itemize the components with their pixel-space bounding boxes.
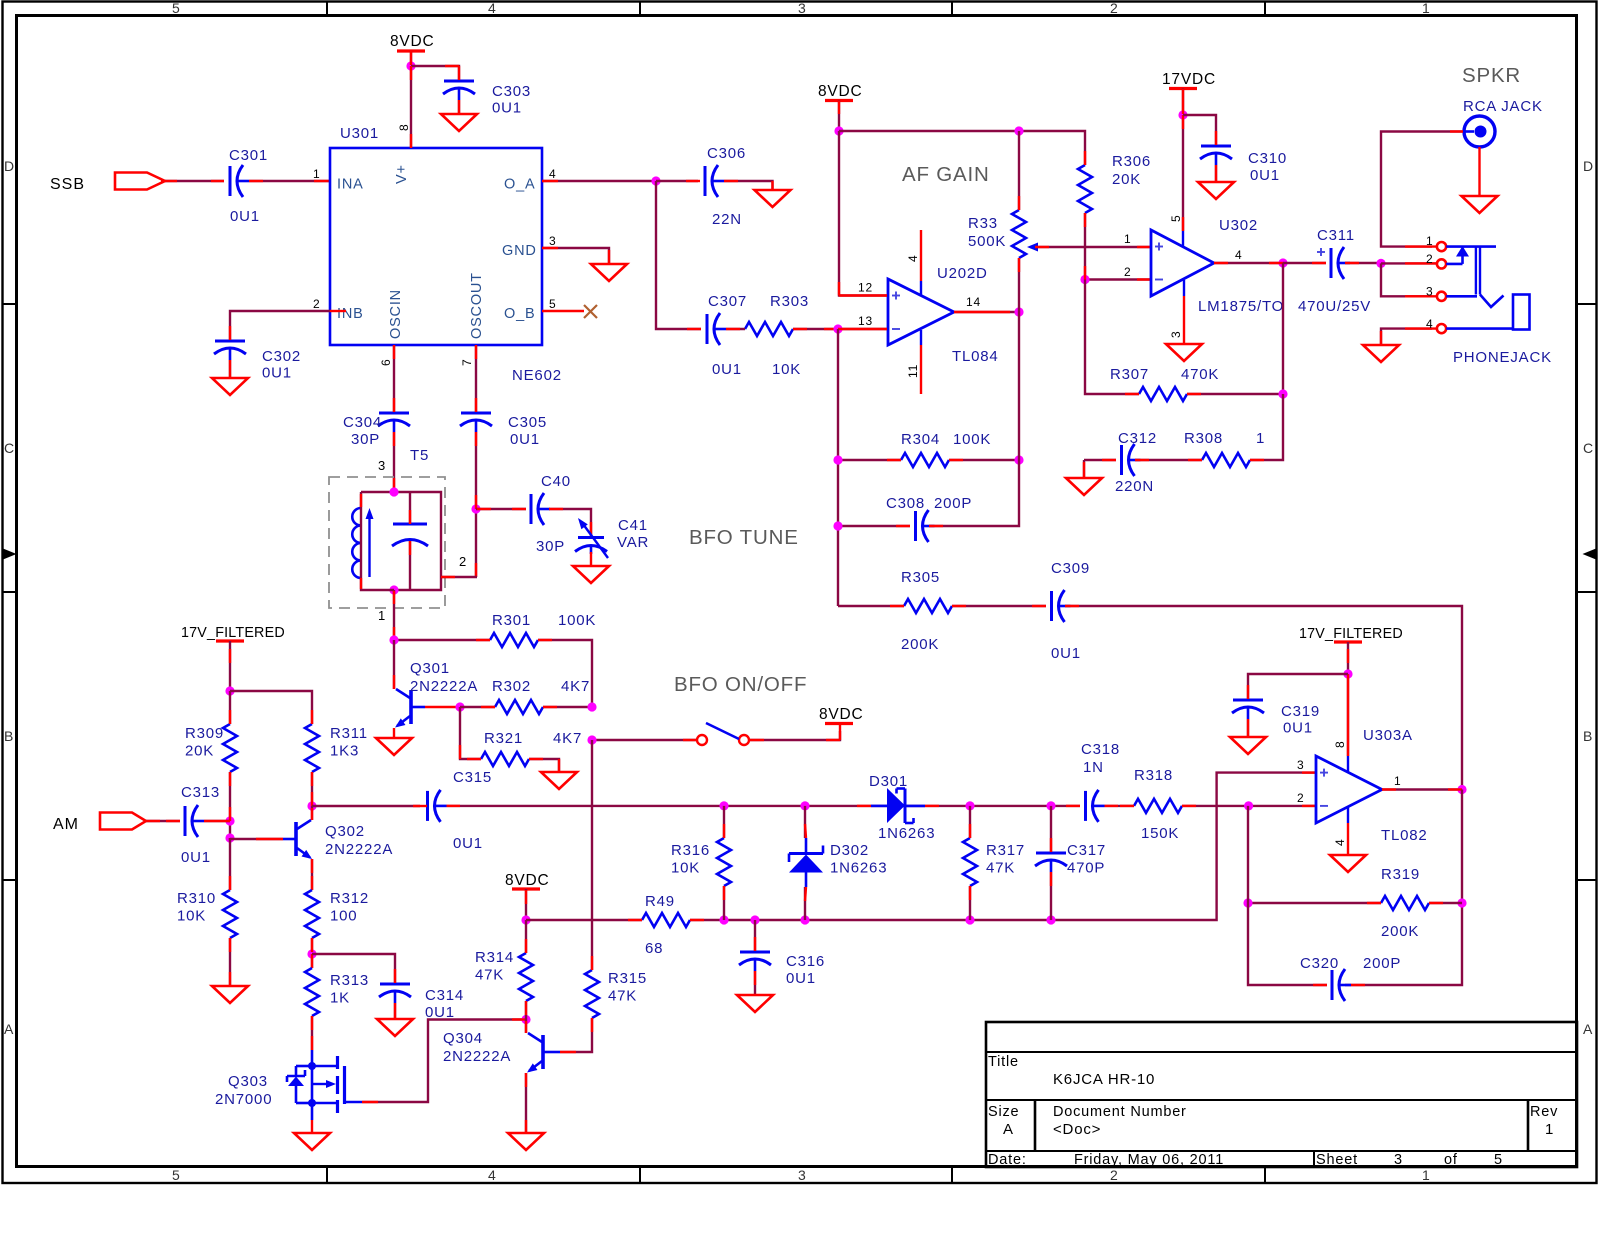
resistor R49 <box>642 893 690 957</box>
wire ground to C312 <box>1084 459 1116 461</box>
diode D301 1N6263 <box>869 773 935 842</box>
svg-text:470P: 470P <box>1067 860 1105 877</box>
svg-text:TL082: TL082 <box>1381 827 1428 844</box>
wire 8VDC stem <box>525 889 527 920</box>
U303A pin numbers <box>1297 741 1401 846</box>
wire C307 to R303 <box>726 328 745 330</box>
svg-text:R317: R317 <box>986 842 1025 859</box>
resistor R314 <box>475 949 533 1001</box>
svg-text:R308: R308 <box>1184 430 1223 447</box>
wire C316 to ground <box>754 971 756 995</box>
junction <box>651 176 660 185</box>
wire <box>1018 258 1020 312</box>
svg-text:1N6263: 1N6263 <box>830 860 887 877</box>
wire pin stubs <box>683 739 696 741</box>
wire <box>230 838 283 839</box>
wire D302 cathode <box>804 806 806 838</box>
junction <box>1278 389 1287 398</box>
wire to C306 <box>656 180 698 182</box>
svg-text:1: 1 <box>1422 1167 1431 1183</box>
svg-text:Q301: Q301 <box>410 660 450 677</box>
wire R312 bottom <box>311 938 313 968</box>
wire to R305 <box>838 605 904 607</box>
resistor R304 <box>901 431 991 467</box>
wire C314 to ground <box>394 1003 396 1019</box>
svg-text:17V_FILTERED: 17V_FILTERED <box>1299 626 1403 642</box>
op-amp U303A TL082 <box>1316 727 1428 844</box>
svg-text:14: 14 <box>966 295 981 309</box>
svg-text:SSB: SSB <box>50 176 85 193</box>
svg-text:12: 12 <box>858 281 873 295</box>
power 17V_FILTERED (left) <box>181 625 285 641</box>
svg-text:Q302: Q302 <box>325 823 365 840</box>
svg-text:AM: AM <box>53 816 79 833</box>
wire C303 to ground <box>458 100 460 114</box>
svg-text:7: 7 <box>460 359 474 366</box>
svg-text:10K: 10K <box>772 361 801 378</box>
svg-text:C308: C308 <box>886 495 925 512</box>
svg-text:R315: R315 <box>608 970 647 987</box>
resistor R311 <box>305 724 368 772</box>
junction <box>1243 898 1252 907</box>
svg-text:RCA JACK: RCA JACK <box>1463 98 1543 115</box>
wire T5 pin1 to R301 <box>394 639 490 641</box>
svg-text:0U1: 0U1 <box>786 970 816 987</box>
junction <box>833 455 842 464</box>
wire <box>475 345 477 412</box>
svg-text:8: 8 <box>397 124 411 131</box>
wire <box>393 728 395 738</box>
wire <box>311 1120 313 1133</box>
power 8VDC (switch) <box>819 706 864 724</box>
ground (U303A) <box>1330 855 1366 872</box>
svg-text:R314: R314 <box>475 949 514 966</box>
wire <box>311 806 313 820</box>
svg-text:R301: R301 <box>492 612 531 629</box>
resistor R305 <box>901 569 952 653</box>
wire pin stubs <box>230 311 346 378</box>
svg-text:R305: R305 <box>901 569 940 586</box>
svg-text:SPKR: SPKR <box>1462 64 1521 87</box>
ground (C303) <box>441 114 477 131</box>
wire C301 to U301 pin 1 <box>249 180 330 182</box>
svg-text:4: 4 <box>488 0 497 16</box>
junction <box>225 833 234 842</box>
wire to pin 3 <box>1381 263 1432 296</box>
wire <box>361 492 394 590</box>
switch BFO ON/OFF <box>697 723 749 745</box>
svg-text:8VDC: 8VDC <box>390 33 435 50</box>
junction <box>1376 259 1385 268</box>
resistor R321 <box>481 730 582 766</box>
svg-text:Q303: Q303 <box>228 1073 268 1090</box>
svg-text:K6JCA HR-10: K6JCA HR-10 <box>1053 1071 1155 1088</box>
wire pin stubs <box>311 859 313 890</box>
wire R321 left <box>460 707 481 759</box>
svg-text:100K: 100K <box>558 612 596 629</box>
wire <box>312 805 420 807</box>
wire pin stubs <box>1312 262 1359 264</box>
svg-text:0U1: 0U1 <box>492 100 522 117</box>
junction <box>965 801 974 810</box>
svg-text:1K3: 1K3 <box>330 743 359 760</box>
svg-text:TL084: TL084 <box>952 348 999 365</box>
svg-text:0U1: 0U1 <box>230 208 260 225</box>
wire pin stubs <box>754 937 756 985</box>
junction <box>719 915 728 924</box>
ground (C312) <box>1066 478 1102 495</box>
svg-text:O_B: O_B <box>504 306 535 322</box>
svg-text:R49: R49 <box>645 893 675 910</box>
wire <box>542 310 584 312</box>
wire U302 pin 3 to ground <box>1183 280 1185 344</box>
svg-text:2: 2 <box>459 554 467 569</box>
svg-text:BFO TUNE: BFO TUNE <box>689 526 799 549</box>
junction <box>389 487 398 496</box>
wire to C303 <box>411 66 459 80</box>
wire pin stubs <box>1085 151 1151 280</box>
wire <box>475 432 477 577</box>
svg-text:C307: C307 <box>708 293 747 310</box>
ground (U302 pin 3) <box>1166 344 1202 361</box>
wire C313 to bias node <box>204 820 230 822</box>
wire pin stubs <box>1125 393 1201 395</box>
resistor R318 <box>1134 767 1182 842</box>
capacitor C40 <box>531 473 571 555</box>
title block frame <box>986 1022 1577 1167</box>
wire <box>1183 115 1216 145</box>
wire <box>393 345 395 412</box>
wire pin stubs <box>890 605 1079 607</box>
svg-text:470U/25V: 470U/25V <box>1298 298 1371 315</box>
ground (RCA) <box>1462 196 1498 213</box>
junction <box>307 801 316 810</box>
junction <box>800 915 809 924</box>
wire <box>312 954 395 983</box>
svg-text:3: 3 <box>1169 331 1183 338</box>
ground (phone jack) <box>1363 345 1399 362</box>
capacitor C314 <box>379 984 464 1021</box>
junction <box>587 702 596 711</box>
capacitor C309 <box>1051 560 1090 662</box>
svg-text:BFO ON/OFF: BFO ON/OFF <box>674 673 807 696</box>
wire <box>542 180 656 182</box>
svg-text:B: B <box>4 728 14 744</box>
svg-text:1: 1 <box>1422 0 1431 16</box>
resistor R301 <box>490 612 596 647</box>
svg-text:20K: 20K <box>185 743 214 760</box>
svg-text:C310: C310 <box>1248 150 1287 167</box>
svg-text:6: 6 <box>379 359 393 366</box>
T5 pin numbers <box>378 458 467 623</box>
wire pin stubs <box>1382 788 1462 790</box>
wire <box>839 131 887 296</box>
resistor R317 <box>963 838 1025 886</box>
wire C310 to ground <box>1215 165 1217 182</box>
wire pin stubs <box>393 591 395 640</box>
power 17V_FILTERED (right) <box>1299 626 1403 642</box>
diode D302 1N6263 <box>789 838 887 887</box>
svg-text:2: 2 <box>1110 1167 1119 1183</box>
svg-text:R316: R316 <box>671 842 710 859</box>
wire R311 bottom <box>311 772 313 806</box>
wire <box>425 706 460 708</box>
wire C316 top <box>754 920 756 951</box>
op-amp U302 LM1875 <box>1151 217 1284 315</box>
capacitor C305 <box>460 413 547 448</box>
junction <box>834 126 843 135</box>
wire C318 to R318 <box>1105 805 1135 807</box>
wire pin stubs <box>542 181 773 190</box>
connector RCA JACK <box>1463 98 1543 147</box>
ground (C314) <box>377 1019 413 1036</box>
wire pin stubs <box>460 745 559 772</box>
resistor R313 <box>305 968 369 1016</box>
wire <box>1250 394 1283 460</box>
port AM <box>53 813 146 834</box>
wire pin stubs <box>481 706 557 708</box>
svg-text:8VDC: 8VDC <box>818 83 863 100</box>
wire pin stubs <box>311 938 313 968</box>
svg-text:200K: 200K <box>901 636 939 653</box>
svg-text:220N: 220N <box>1115 478 1154 495</box>
wire <box>1085 213 1151 280</box>
wire C317 bottom <box>1050 872 1052 920</box>
svg-text:2N2222A: 2N2222A <box>410 678 478 695</box>
junction <box>406 61 415 70</box>
port SSB <box>50 173 165 194</box>
op-amp U202D TL084 <box>888 265 999 365</box>
wire pin stubs <box>687 328 838 330</box>
wire pin stubs <box>1066 805 1316 807</box>
ground (U301 GND) <box>591 264 627 281</box>
capacitor C304 <box>343 413 410 448</box>
wire R309 top <box>229 691 231 724</box>
wire R314 top <box>525 920 527 953</box>
wire <box>230 311 330 340</box>
svg-text:GND: GND <box>502 243 537 259</box>
svg-text:0U1: 0U1 <box>1250 167 1280 184</box>
svg-text:2N2222A: 2N2222A <box>443 1048 511 1065</box>
svg-text:R309: R309 <box>185 725 224 742</box>
junction <box>1046 801 1055 810</box>
wire R302 left <box>460 706 495 708</box>
svg-text:47K: 47K <box>608 988 637 1005</box>
wire R305 to C309 <box>952 605 1046 607</box>
svg-text:C311: C311 <box>1317 227 1355 244</box>
svg-text:C40: C40 <box>541 473 571 490</box>
capacitor C308 <box>886 495 972 542</box>
svg-text:R313: R313 <box>330 972 369 989</box>
svg-text:C317: C317 <box>1067 842 1106 859</box>
transistor Q304 2N2222A <box>443 1030 560 1073</box>
svg-text:0U1: 0U1 <box>262 365 292 382</box>
svg-text:11: 11 <box>906 364 920 378</box>
wire pin stubs <box>839 101 887 296</box>
wire pin stubs <box>311 808 313 820</box>
svg-text:1: 1 <box>1124 232 1131 246</box>
svg-text:1: 1 <box>313 167 320 181</box>
wire <box>525 1073 527 1133</box>
wire C308 to output node <box>929 312 1019 526</box>
wire <box>441 576 477 578</box>
wire <box>1035 246 1151 248</box>
wire pin stubs <box>394 969 396 1019</box>
wire pin stubs <box>1050 838 1052 886</box>
svg-text:C304: C304 <box>343 414 382 431</box>
wire <box>393 432 395 492</box>
wire <box>311 859 313 890</box>
wire R319 to output <box>1429 902 1462 904</box>
capacitor C319 <box>1232 700 1320 737</box>
transistor Q301 2N2222A <box>395 660 478 728</box>
wire pin stubs <box>1018 196 1020 272</box>
svg-text:U303A: U303A <box>1363 727 1413 744</box>
svg-text:Title: Title <box>988 1054 1019 1070</box>
wire C319 to ground <box>1247 719 1249 737</box>
svg-text:1: 1 <box>378 608 386 623</box>
wire pin stubs <box>1367 902 1443 904</box>
capacitor C320 <box>1300 955 1401 1001</box>
wire pin stubs <box>1214 262 1283 264</box>
junction <box>1457 785 1466 794</box>
svg-text:A: A <box>1583 1021 1593 1037</box>
ground (Q304) <box>508 1133 544 1150</box>
svg-text:C318: C318 <box>1081 741 1120 758</box>
wire R304 to output node <box>949 459 1019 461</box>
wire 17V stem <box>229 641 231 691</box>
label AF GAIN <box>902 163 990 186</box>
svg-text:AF GAIN: AF GAIN <box>902 163 990 186</box>
junction <box>225 686 234 695</box>
svg-text:2: 2 <box>1124 265 1131 279</box>
junction <box>833 521 842 530</box>
ground (C306) <box>755 190 791 207</box>
svg-text:150K: 150K <box>1141 825 1179 842</box>
wire pin stubs <box>256 838 283 840</box>
ground (C316) <box>737 995 773 1012</box>
wire C309 to U303A output <box>1065 606 1462 790</box>
wire <box>393 590 395 640</box>
junction <box>800 801 809 810</box>
junction <box>1080 275 1089 284</box>
svg-text:4: 4 <box>906 255 920 262</box>
wire C317 top <box>1050 806 1052 852</box>
wire pin stubs <box>413 805 460 807</box>
junction <box>521 915 530 924</box>
svg-text:30P: 30P <box>536 538 565 555</box>
svg-text:8: 8 <box>1333 741 1347 748</box>
svg-text:470K: 470K <box>1181 366 1219 383</box>
wire <box>954 311 1019 313</box>
junction <box>225 816 234 825</box>
junction <box>587 735 596 744</box>
svg-text:1: 1 <box>1394 774 1401 788</box>
capacitor C301 <box>229 147 268 225</box>
wire pin stubs <box>476 639 552 641</box>
svg-text:0U1: 0U1 <box>1283 720 1313 737</box>
svg-text:2N7000: 2N7000 <box>215 1091 272 1108</box>
svg-text:4: 4 <box>488 1167 497 1183</box>
resistor R319 <box>1381 866 1429 940</box>
junction <box>389 585 398 594</box>
wire 8VDC stem <box>838 101 840 132</box>
power 8VDC (Q304) <box>505 872 550 889</box>
wire pin stubs <box>1381 329 1437 345</box>
svg-text:22N: 22N <box>712 211 742 228</box>
svg-text:C315: C315 <box>453 769 492 786</box>
wire R315 to Q304 base <box>560 1018 592 1052</box>
svg-text:<Doc>: <Doc> <box>1053 1121 1101 1138</box>
wire C305 node to C40 <box>476 508 526 510</box>
capacitor C306 <box>705 145 746 228</box>
ground (Q303) <box>294 1133 330 1150</box>
capacitor C318 <box>1081 741 1120 822</box>
wire pin stubs <box>161 180 330 182</box>
wire <box>1345 790 1462 986</box>
wire <box>591 740 593 970</box>
label BFO TUNE <box>689 526 799 549</box>
svg-text:C306: C306 <box>707 145 746 162</box>
svg-text:of: of <box>1444 1152 1458 1168</box>
capacitor C311 470U <box>1298 227 1371 315</box>
svg-text:1N6263: 1N6263 <box>878 825 935 842</box>
wire <box>1085 280 1139 395</box>
svg-text:4: 4 <box>549 167 556 181</box>
wire <box>750 731 840 740</box>
wire pin stubs <box>525 1073 527 1133</box>
wire R314 bottom <box>525 1001 527 1020</box>
wire pin stubs <box>361 494 410 589</box>
svg-text:C312: C312 <box>1118 430 1157 447</box>
wire R318 to U303A pin 2 <box>1182 805 1316 807</box>
svg-text:V+: V+ <box>394 164 410 184</box>
junction <box>1457 898 1466 907</box>
capacitor C303 <box>443 81 531 117</box>
svg-text:R303: R303 <box>770 293 809 310</box>
svg-text:5: 5 <box>1494 1152 1503 1168</box>
wire detector rail <box>447 805 1081 807</box>
svg-text:Friday, May 06, 2011: Friday, May 06, 2011 <box>1074 1152 1224 1168</box>
capacitor C317 <box>1035 842 1106 877</box>
svg-text:2: 2 <box>1110 0 1119 16</box>
svg-text:OSCIN: OSCIN <box>388 289 404 339</box>
svg-text:R312: R312 <box>330 890 369 907</box>
svg-text:8VDC: 8VDC <box>819 706 864 723</box>
resistor R308 <box>1184 430 1265 467</box>
wire pin stubs <box>1182 89 1184 231</box>
wire pin stubs <box>857 805 939 807</box>
junction <box>1278 258 1287 267</box>
connector PHONEJACK <box>1437 242 1552 366</box>
wire pin stubs <box>1247 685 1249 737</box>
wire <box>1478 147 1480 196</box>
svg-text:C: C <box>4 440 15 456</box>
wire <box>1382 788 1462 790</box>
svg-text:U302: U302 <box>1219 217 1258 234</box>
wire pin stubs <box>723 824 725 900</box>
wire <box>1381 262 1437 264</box>
wire pin stubs <box>1215 131 1217 182</box>
svg-text:17VDC: 17VDC <box>1162 71 1216 88</box>
svg-text:R319: R319 <box>1381 866 1420 883</box>
wire U303A pin 4 to ground <box>1347 807 1349 855</box>
wire R302 right <box>543 706 592 708</box>
ground (C302) <box>212 378 248 395</box>
svg-text:200P: 200P <box>934 495 972 512</box>
resistor R315 <box>585 970 647 1018</box>
wire pin stubs <box>838 328 887 330</box>
